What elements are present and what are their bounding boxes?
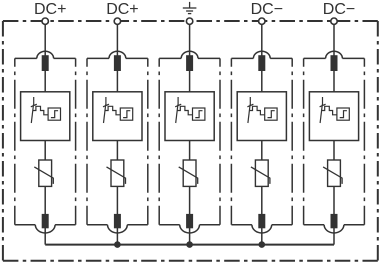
upper disconnector element channel 4 xyxy=(258,55,265,71)
module box right dash-dot edge channel 2 xyxy=(147,58,149,224)
step function glyph channel 3 xyxy=(195,111,202,118)
bus junction dot node channel 2 xyxy=(114,241,121,248)
wire switch unit to varistor channel 1 xyxy=(44,140,46,161)
svg-text:DC−: DC− xyxy=(251,1,283,18)
wire disconnector to switch unit channel 1 xyxy=(44,71,46,93)
wire varistor to lower disconnector channel 2 xyxy=(116,186,118,215)
SCI switch monitoring unit box channel 1 xyxy=(21,92,70,141)
varistor diagonal stroke channel 3 xyxy=(179,167,198,184)
varistor body channel 5 xyxy=(328,160,341,186)
module box top edge channel 2 xyxy=(87,57,109,59)
wire terminal to disconnector channel 5 xyxy=(333,24,335,56)
wire switch unit to varistor channel 2 xyxy=(116,140,118,161)
SCI switch monitoring unit box channel 3 xyxy=(165,92,214,141)
module box bottom arc bump channel 1 xyxy=(35,225,55,233)
module box left dash-dot edge channel 3 xyxy=(158,58,160,224)
upper disconnector element channel 5 xyxy=(331,55,338,71)
terminal circle channel 3 xyxy=(186,18,192,24)
wire terminal to disconnector channel 2 xyxy=(116,24,118,56)
module box top arc bump channel 2 xyxy=(109,51,126,58)
wire varistor to lower disconnector channel 4 xyxy=(261,186,263,215)
wire switch unit to varistor channel 4 xyxy=(261,140,263,161)
svg-text:DC+: DC+ xyxy=(106,1,138,18)
module box top arc bump channel 1 xyxy=(37,51,54,58)
module box right dash-dot edge channel 3 xyxy=(219,58,221,224)
switch blade channel 3 xyxy=(176,105,178,123)
switch contact lead channel 4 xyxy=(249,97,251,106)
switch blade channel 2 xyxy=(104,105,106,123)
module box top edge channel 4 xyxy=(231,57,253,59)
terminal circle channel 5 xyxy=(331,18,337,24)
switch contact tick channel 3 xyxy=(175,104,181,107)
lower disconnector element channel 4 xyxy=(258,214,265,228)
actuator linkage channel 4 xyxy=(249,106,264,115)
monitoring device square channel 5 xyxy=(337,108,349,120)
module box top edge channel 3 xyxy=(159,57,181,59)
actuator linkage channel 1 xyxy=(33,106,48,115)
earth/ground symbol label channel 3 xyxy=(183,2,197,14)
varistor body channel 1 xyxy=(39,160,52,186)
bus junction dot node channel 4 xyxy=(259,241,266,248)
monitoring device square channel 4 xyxy=(265,108,277,120)
upper disconnector element channel 2 xyxy=(114,55,121,71)
module box right dash-dot edge channel 4 xyxy=(291,58,293,224)
module box left dash-dot edge channel 5 xyxy=(303,58,305,224)
module box bottom arc bump channel 2 xyxy=(108,225,128,233)
wire lower disconnector to bus channel 3 xyxy=(189,228,191,245)
module box right dash-dot edge channel 1 xyxy=(75,58,77,224)
wire varistor to lower disconnector channel 5 xyxy=(333,186,335,215)
svg-text:DC+: DC+ xyxy=(34,1,66,18)
module box bottom arc bump channel 5 xyxy=(324,225,344,233)
switch contact tick channel 1 xyxy=(31,104,37,107)
varistor body channel 3 xyxy=(183,160,196,186)
wire lower disconnector to bus channel 5 xyxy=(333,228,335,245)
SCI switch monitoring unit box channel 5 xyxy=(309,92,358,141)
upper disconnector element channel 3 xyxy=(186,55,193,71)
switch contact tick channel 5 xyxy=(320,104,326,107)
module box left dash-dot edge channel 1 xyxy=(14,58,16,224)
module box bottom edge channel 1 xyxy=(15,224,36,226)
varistor body channel 2 xyxy=(111,160,124,186)
svg-text:DC−: DC− xyxy=(323,1,355,18)
enclosure border left edge xyxy=(2,21,4,261)
switch contact lead channel 2 xyxy=(105,97,107,106)
switch contact lead channel 5 xyxy=(322,97,324,106)
switch blade channel 5 xyxy=(320,105,322,123)
lower disconnector element channel 1 xyxy=(42,214,49,228)
module box bottom edge channel 3 xyxy=(159,224,180,226)
wire lower disconnector to bus channel 2 xyxy=(116,228,118,245)
actuator linkage channel 5 xyxy=(322,106,337,115)
terminal circle channel 4 xyxy=(259,18,265,24)
switch contact lead channel 3 xyxy=(177,97,179,106)
SCI switch monitoring unit box channel 4 xyxy=(237,92,286,141)
wire disconnector to switch unit channel 3 xyxy=(189,71,191,93)
step function glyph channel 1 xyxy=(51,111,58,118)
wire disconnector to switch unit channel 4 xyxy=(261,71,263,93)
monitoring device square channel 3 xyxy=(193,108,205,120)
wire varistor to lower disconnector channel 3 xyxy=(189,186,191,215)
module box left dash-dot edge channel 4 xyxy=(230,58,232,224)
module box bottom edge channel 5 xyxy=(304,224,325,226)
step function glyph channel 2 xyxy=(123,111,130,118)
bottom equipotential bus wire xyxy=(45,244,334,246)
monitoring device square channel 2 xyxy=(120,108,132,120)
wire switch unit to varistor channel 3 xyxy=(189,140,191,161)
module box top arc bump channel 4 xyxy=(253,51,270,58)
switch contact tick channel 4 xyxy=(247,104,253,107)
varistor diagonal stroke channel 1 xyxy=(34,167,53,184)
enclosure border right edge xyxy=(377,21,379,261)
switch blade channel 4 xyxy=(248,105,250,123)
lower disconnector element channel 5 xyxy=(331,214,338,228)
varistor diagonal stroke channel 5 xyxy=(323,167,342,184)
actuator linkage channel 2 xyxy=(105,106,120,115)
enclosure border top edge xyxy=(3,20,378,22)
wire varistor to lower disconnector channel 1 xyxy=(44,186,46,215)
wire switch unit to varistor channel 5 xyxy=(333,140,335,161)
lower disconnector element channel 2 xyxy=(114,214,121,228)
bus junction dot node channel 3 xyxy=(186,241,193,248)
module box top edge channel 5 xyxy=(304,57,326,59)
switch contact lead channel 1 xyxy=(33,97,35,106)
module box bottom arc bump channel 4 xyxy=(252,225,272,233)
actuator linkage channel 3 xyxy=(177,106,192,115)
step function glyph channel 4 xyxy=(268,111,275,118)
wire lower disconnector to bus channel 1 xyxy=(44,228,46,245)
module box bottom arc bump channel 3 xyxy=(180,225,200,233)
terminal circle channel 1 xyxy=(42,18,48,24)
module box top arc bump channel 3 xyxy=(181,51,198,58)
module box left dash-dot edge channel 2 xyxy=(86,58,88,224)
lower disconnector element channel 3 xyxy=(186,214,193,228)
module box top arc bump channel 5 xyxy=(326,51,343,58)
module box right dash-dot edge channel 5 xyxy=(363,58,365,224)
wire terminal to disconnector channel 3 xyxy=(189,24,191,56)
switch blade channel 1 xyxy=(31,105,33,123)
step function glyph channel 5 xyxy=(340,111,347,118)
module box top edge channel 1 xyxy=(15,57,37,59)
wire disconnector to switch unit channel 5 xyxy=(333,71,335,93)
wire lower disconnector to bus channel 4 xyxy=(261,228,263,245)
module box bottom edge channel 2 xyxy=(87,224,108,226)
switch contact tick channel 2 xyxy=(103,104,109,107)
module box bottom edge channel 4 xyxy=(231,224,252,226)
varistor diagonal stroke channel 4 xyxy=(251,167,270,184)
wire disconnector to switch unit channel 2 xyxy=(116,71,118,93)
wire terminal to disconnector channel 1 xyxy=(44,24,46,56)
varistor body channel 4 xyxy=(255,160,268,186)
enclosure border bottom edge xyxy=(3,260,378,262)
monitoring device square channel 1 xyxy=(48,108,60,120)
SCI switch monitoring unit box channel 2 xyxy=(93,92,142,141)
upper disconnector element channel 1 xyxy=(42,55,49,71)
terminal circle channel 2 xyxy=(114,18,120,24)
wire terminal to disconnector channel 4 xyxy=(261,24,263,56)
varistor diagonal stroke channel 2 xyxy=(107,167,126,184)
